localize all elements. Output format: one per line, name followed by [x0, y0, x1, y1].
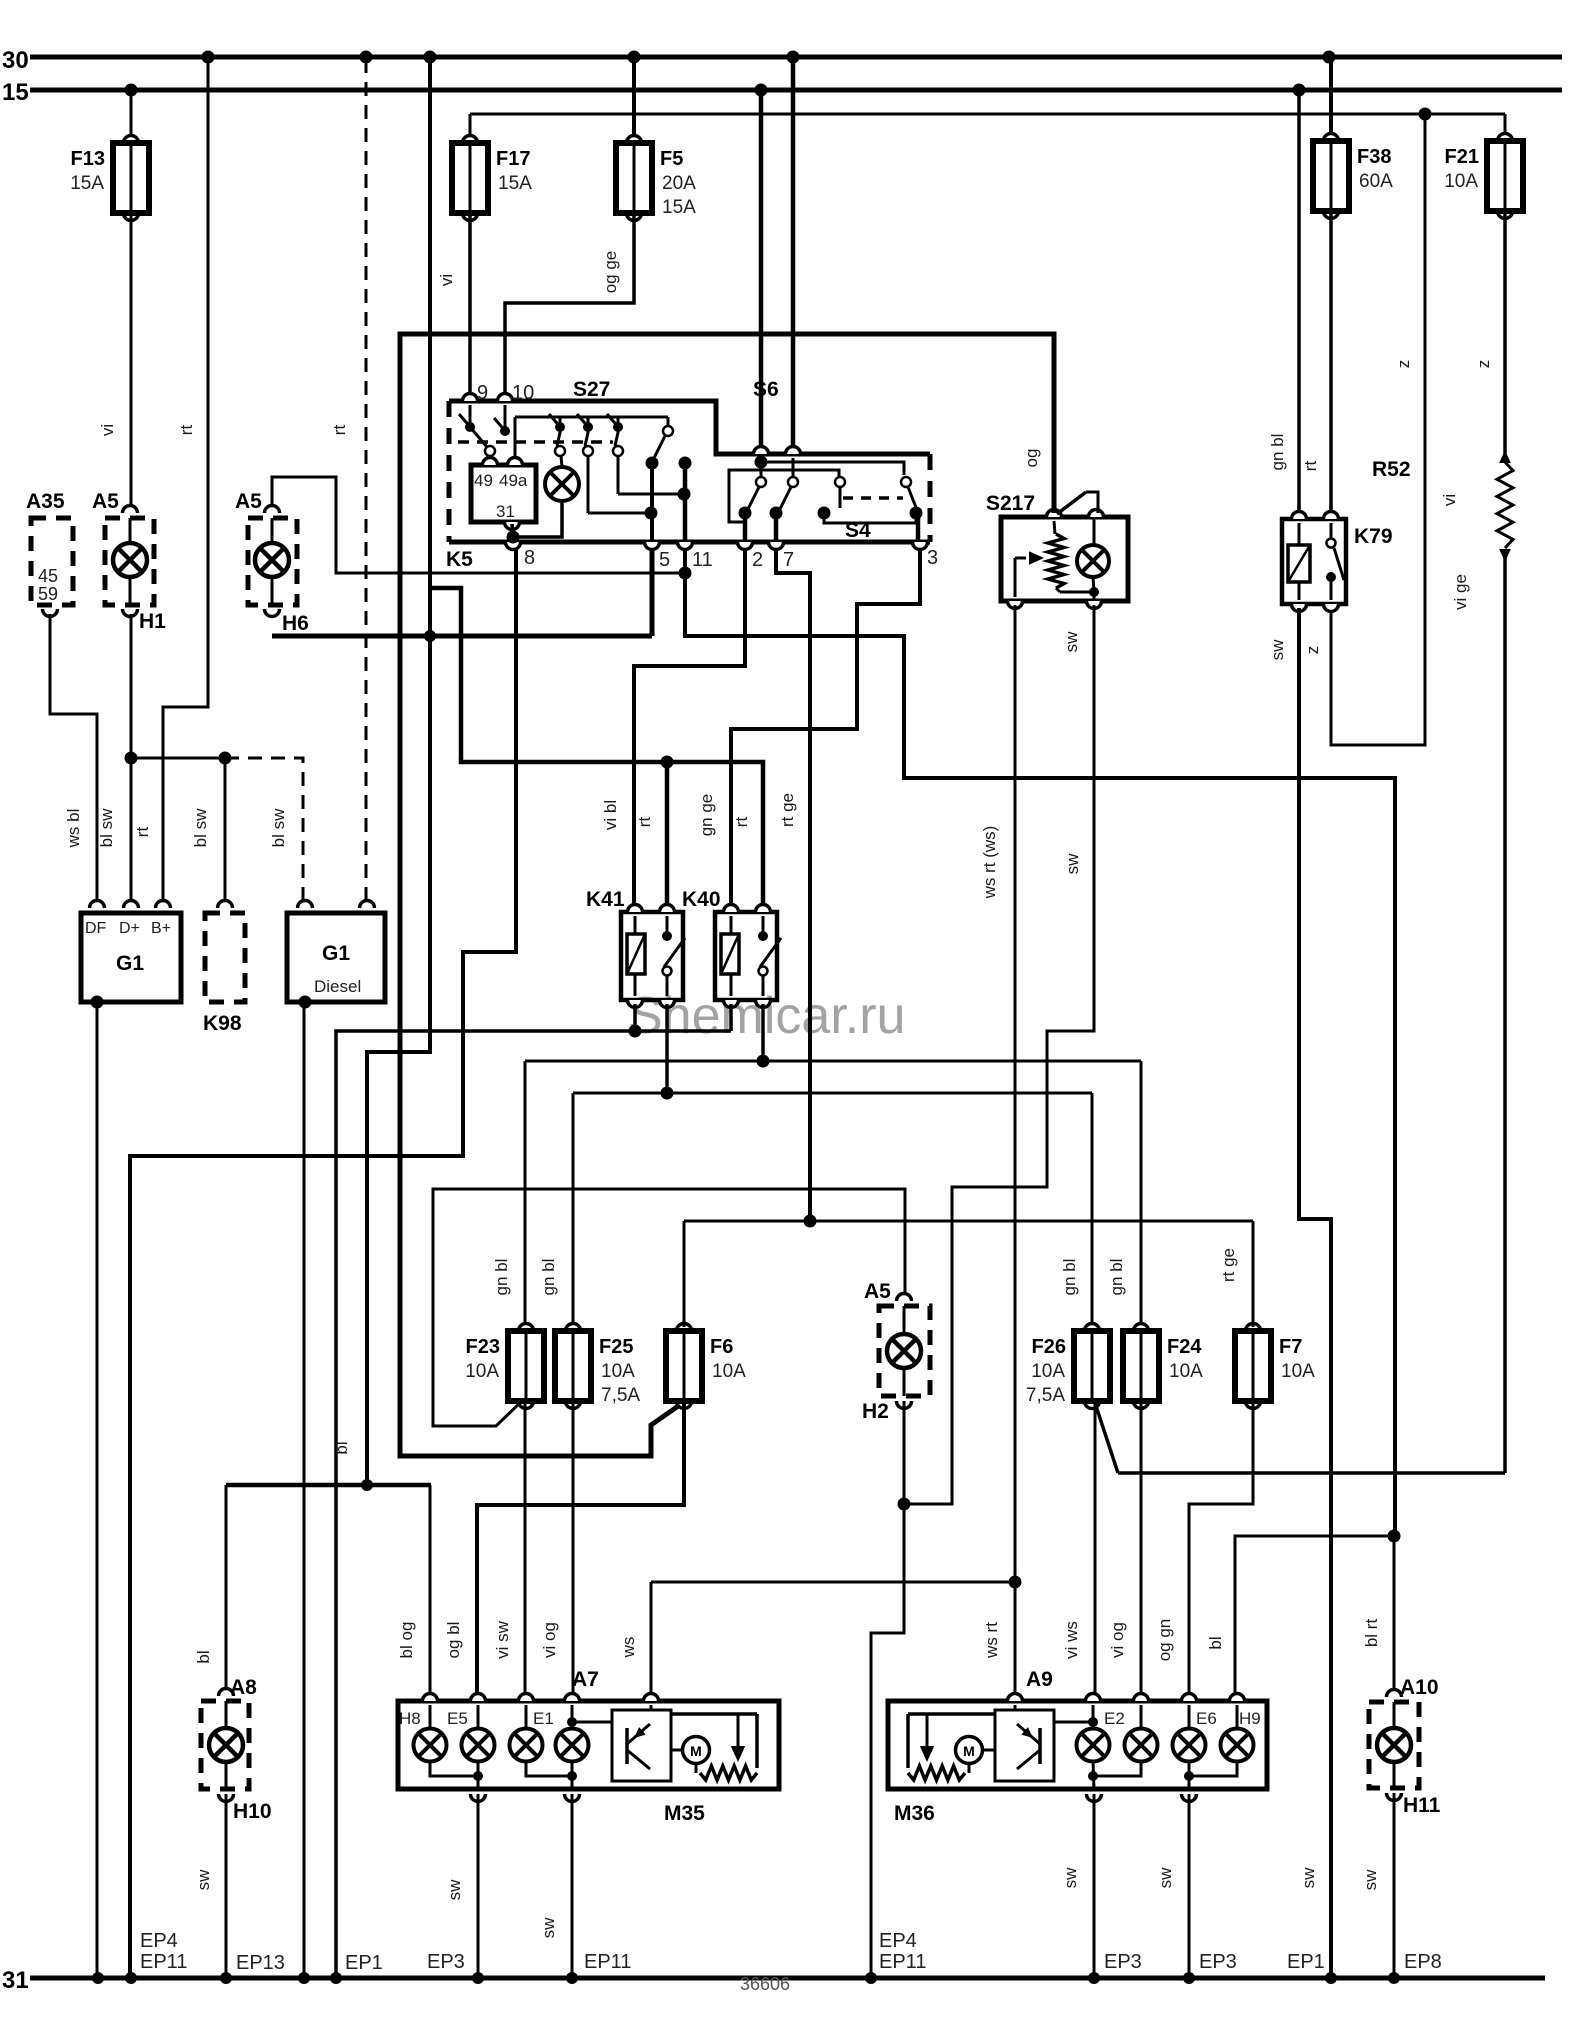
svg-text:gn bl: gn bl — [1107, 1259, 1126, 1296]
bus 31 — [2, 1967, 1545, 1994]
node ws junction — [1009, 1576, 1022, 1589]
ground EP4 EP11 middle — [865, 1930, 926, 1984]
svg-text:EP4: EP4 — [140, 1930, 178, 1952]
svg-text:K5: K5 — [446, 548, 473, 571]
svg-text:bl rt: bl rt — [1362, 1619, 1381, 1648]
lamp A8/H10 — [194, 1650, 272, 1823]
bus 30 — [2, 47, 1562, 74]
svg-text:A10: A10 — [1400, 1676, 1439, 1699]
svg-text:F25: F25 — [599, 1336, 633, 1358]
wire og bl F6 to A7 — [444, 1402, 684, 1696]
wire sw A9 EP3 left — [1061, 1794, 1094, 1978]
terminal 3 — [913, 542, 939, 569]
svg-text:30: 30 — [2, 47, 29, 74]
svg-text:60A: 60A — [1359, 171, 1393, 192]
svg-text:A5: A5 — [235, 490, 262, 513]
ground EP11 A7 — [566, 1951, 631, 1984]
lamp H9 in A9 — [1221, 1705, 1254, 1762]
ground EP13 — [220, 1952, 285, 1984]
node bl junction on H6 line — [424, 630, 436, 642]
svg-text:K79: K79 — [1354, 525, 1393, 548]
relay K79 — [1282, 512, 1393, 612]
svg-text:A9: A9 — [1026, 1668, 1053, 1691]
relay box 49/49a/31 — [471, 458, 536, 530]
wire sw A9 EP3 right — [1156, 1794, 1189, 1978]
svg-text:K40: K40 — [682, 888, 721, 911]
svg-text:F7: F7 — [1279, 1336, 1302, 1358]
lamp A5/H2 — [862, 1280, 930, 1504]
svg-text:bl sw: bl sw — [191, 808, 210, 847]
lamp E6 in A9 — [1173, 1705, 1206, 1762]
svg-text:45: 45 — [38, 566, 58, 586]
svg-text:DF: DF — [85, 920, 107, 937]
fuse F23 10A — [465, 1323, 544, 1409]
svg-text:H1: H1 — [139, 610, 166, 633]
svg-text:sw: sw — [194, 1869, 213, 1891]
svg-text:og ge: og ge — [601, 251, 620, 294]
svg-text:ws rt (ws): ws rt (ws) — [980, 826, 999, 900]
svg-text:F24: F24 — [1167, 1336, 1202, 1358]
wire sw A10 to ground — [1361, 1793, 1394, 1978]
svg-text:E2: E2 — [1104, 1709, 1125, 1728]
svg-text:rt: rt — [133, 827, 152, 838]
wire z K79 to top link — [1303, 114, 1425, 745]
wire og gn F7 to A9 — [1155, 1400, 1253, 1696]
svg-text:7,5A: 7,5A — [601, 1385, 640, 1406]
svg-text:E5: E5 — [447, 1709, 468, 1728]
svg-text:H10: H10 — [233, 1800, 272, 1823]
svg-text:Shemicar.ru: Shemicar.ru — [628, 987, 905, 1045]
svg-text:rt: rt — [1301, 461, 1320, 472]
svg-text:K41: K41 — [586, 888, 625, 911]
ground EP1 right — [1287, 1951, 1337, 1984]
svg-text:F5: F5 — [660, 148, 683, 170]
svg-text:ws rt: ws rt — [982, 1622, 1001, 1659]
svg-text:S6: S6 — [753, 378, 779, 401]
svg-text:R52: R52 — [1372, 458, 1411, 481]
relay K41 — [586, 888, 685, 1008]
svg-text:49a: 49a — [499, 471, 528, 490]
svg-text:10A: 10A — [1169, 1361, 1203, 1382]
svg-text:sw: sw — [445, 1879, 464, 1901]
svg-text:rt: rt — [177, 425, 196, 436]
svg-text:gn bl: gn bl — [1268, 434, 1287, 471]
svg-text:EP8: EP8 — [1404, 1951, 1442, 1973]
wire vi bl terminal 2 to K41 — [601, 548, 745, 908]
wire bl sw dashed to G1 Diesel — [225, 758, 303, 905]
lamp A5/H6 — [235, 490, 309, 635]
wire terminal 11 to interior lights — [685, 548, 1395, 1536]
svg-text:A35: A35 — [26, 490, 65, 513]
S27 internal links — [588, 456, 691, 542]
wire rt branch to relays K41 K40 — [431, 588, 763, 908]
lamp H8 in A7 — [414, 1705, 447, 1762]
svg-text:vi og: vi og — [1108, 1622, 1127, 1658]
svg-text:H11: H11 — [1403, 1794, 1441, 1817]
svg-text:sw: sw — [1268, 639, 1287, 661]
lamp E2 in A9 — [1077, 1705, 1110, 1762]
wire bl sw to K98 — [191, 758, 225, 905]
svg-text:z: z — [1394, 360, 1413, 369]
svg-text:2: 2 — [752, 549, 763, 571]
watermark — [628, 987, 905, 1045]
svg-text:3: 3 — [927, 547, 938, 569]
svg-text:59: 59 — [38, 584, 58, 604]
svg-text:vi: vi — [437, 274, 456, 286]
lamp A5/H1 — [92, 490, 166, 633]
svg-text:EP3: EP3 — [427, 1951, 465, 1973]
wire F17-F21 top link — [470, 113, 1505, 116]
lamp in A7 — [510, 1705, 543, 1762]
fuse F7 10A — [1235, 1323, 1315, 1409]
svg-text:EP4: EP4 — [879, 1930, 917, 1952]
wire rt dashed bus30 to G1 Diesel — [330, 59, 366, 905]
svg-text:S217: S217 — [986, 492, 1035, 515]
svg-text:vi ws: vi ws — [1062, 1621, 1081, 1659]
wire EP1 ground for relay coils — [336, 1025, 731, 1979]
svg-text:sw: sw — [1156, 1867, 1175, 1889]
ground EP3 A9 right — [1183, 1951, 1237, 1984]
svg-text:sw: sw — [1299, 1867, 1318, 1889]
wire ws rt S217 to A9 — [980, 605, 1015, 1696]
svg-text:EP13: EP13 — [236, 1952, 285, 1974]
terminal 9 — [463, 382, 489, 404]
svg-text:10A: 10A — [601, 1361, 635, 1382]
terminal 7 — [769, 542, 795, 571]
svg-text:7: 7 — [783, 549, 794, 571]
wire K40 coil to ground — [729, 1004, 733, 1031]
lamp E5 in A7 — [462, 1705, 495, 1762]
svg-text:E1: E1 — [533, 1709, 554, 1728]
S27 ignition switch contacts — [458, 405, 692, 470]
svg-text:5: 5 — [659, 549, 670, 571]
switch S217 — [986, 492, 1128, 609]
wire og S217 to F6 — [400, 334, 1054, 1456]
wire sw A7 EP11 — [539, 1794, 572, 1978]
svg-text:ws bl: ws bl — [64, 809, 83, 849]
fuse F21 10A — [1444, 114, 1523, 219]
wire gn bl K41 to F25 F26 — [539, 1004, 1092, 1327]
wire bl bus30 via A8 feed — [332, 57, 430, 1485]
ground EP1 left — [298, 1952, 383, 1984]
wire og ge F5 to S27 terminal 10 — [505, 215, 634, 397]
node H1 junction — [125, 752, 232, 765]
fuse F24 10A — [1123, 1323, 1203, 1409]
wire H6 top to terminal 11 — [272, 477, 692, 580]
svg-text:G1: G1 — [322, 942, 350, 965]
wire vi og F25 to A7 — [540, 1400, 573, 1696]
svg-text:15A: 15A — [662, 197, 696, 218]
svg-text:bl sw: bl sw — [97, 808, 116, 847]
svg-text:gn bl: gn bl — [1060, 1259, 1079, 1296]
svg-text:sw: sw — [1062, 631, 1081, 653]
wire vi ge R52 to F26 — [1095, 556, 1505, 1473]
svg-text:sw: sw — [1361, 1869, 1380, 1891]
A7 internal bottom links — [430, 1761, 577, 1790]
S4 top terminals — [754, 447, 801, 454]
headlight unit A9 — [888, 1668, 1267, 1802]
wire 30 bus to S4 contact — [791, 57, 796, 450]
svg-text:36606: 36606 — [740, 1974, 790, 1994]
bus 15 — [2, 79, 1562, 106]
svg-text:rt ge: rt ge — [1219, 1248, 1238, 1282]
svg-text:vi sw: vi sw — [493, 1620, 512, 1659]
wire K5 terminal 8 to ground — [130, 548, 516, 1978]
svg-text:F26: F26 — [1032, 1336, 1066, 1358]
svg-text:bl og: bl og — [397, 1622, 416, 1659]
node bl junction — [361, 1479, 373, 1491]
svg-text:M35: M35 — [664, 1802, 705, 1825]
wire vi ws F26 to A9 — [1062, 1400, 1095, 1696]
svg-text:K98: K98 — [203, 1012, 242, 1035]
svg-text:vi ge: vi ge — [1451, 574, 1470, 610]
wire G1 ground — [96, 1002, 99, 1978]
node z junction — [1419, 108, 1432, 121]
svg-text:S27: S27 — [573, 378, 610, 401]
svg-text:20A: 20A — [662, 173, 696, 194]
generator G1 Diesel — [287, 901, 385, 1009]
wire vi F13 to H1 — [98, 215, 131, 513]
generator G1 — [81, 901, 181, 1009]
svg-text:EP3: EP3 — [1199, 1951, 1237, 1973]
terminal 10 — [498, 382, 535, 404]
sheet number — [740, 1974, 790, 1994]
wire 15 bus to S4 contact — [759, 90, 764, 450]
wire gn ge terminal 3 to K40 — [697, 548, 920, 908]
svg-text:vi: vi — [98, 424, 117, 436]
ground EP8 — [1388, 1951, 1442, 1984]
svg-text:vi og: vi og — [540, 1622, 559, 1658]
svg-text:gn ge: gn ge — [697, 794, 716, 837]
svg-text:31: 31 — [2, 1967, 29, 1994]
svg-text:Diesel: Diesel — [314, 977, 361, 996]
svg-text:G1: G1 — [116, 952, 144, 975]
svg-text:A5: A5 — [92, 490, 119, 513]
wire A35 to G1 DF — [50, 614, 97, 905]
svg-text:rt ge: rt ge — [778, 793, 797, 827]
wire G1 Diesel ground — [303, 1002, 306, 1978]
svg-text:31: 31 — [496, 502, 515, 521]
svg-text:rt: rt — [635, 817, 654, 828]
lamp in A9 — [1125, 1705, 1158, 1762]
svg-text:E6: E6 — [1196, 1709, 1217, 1728]
svg-text:EP11: EP11 — [140, 1951, 187, 1973]
wire vi sw F23 to A7 — [493, 1400, 525, 1696]
fuse F5 20A/15A — [616, 57, 696, 221]
regulator in A7 — [567, 1705, 671, 1781]
svg-text:A7: A7 — [572, 1668, 599, 1691]
ground EP4 EP11 left — [92, 1930, 187, 1984]
fuse F17 15A — [452, 114, 532, 221]
svg-text:10A: 10A — [1444, 171, 1478, 192]
terminal 11 — [678, 542, 713, 571]
svg-text:H8: H8 — [399, 1709, 421, 1728]
lamp in S27 — [507, 456, 580, 544]
wire rt bus30 to G1 B+ — [163, 57, 208, 905]
relay K40 — [682, 888, 781, 1008]
svg-text:7,5A: 7,5A — [1026, 1385, 1065, 1406]
svg-text:EP1: EP1 — [345, 1952, 383, 1974]
svg-text:ws: ws — [619, 1637, 638, 1659]
svg-text:M: M — [690, 1743, 702, 1759]
svg-text:B+: B+ — [151, 920, 171, 937]
svg-text:EP1: EP1 — [1287, 1951, 1325, 1973]
wire H6 to terminal 5 — [272, 548, 652, 636]
wire vi og F24 to A9 — [1108, 1400, 1141, 1696]
wire bl sw H1 to G1 D+ — [97, 614, 225, 905]
svg-text:10A: 10A — [465, 1361, 499, 1382]
wire sw K79 to EP1 — [1268, 608, 1331, 1978]
wire vi F17 to S27 terminal 9 — [437, 215, 470, 397]
svg-text:F38: F38 — [1357, 146, 1391, 168]
A9 internal bottom links — [1088, 1761, 1237, 1790]
svg-text:EP11: EP11 — [879, 1951, 926, 1973]
svg-text:M: M — [963, 1743, 975, 1759]
svg-text:F23: F23 — [466, 1336, 500, 1358]
svg-text:bl sw: bl sw — [269, 808, 288, 847]
headlight unit A7 — [398, 1668, 779, 1802]
svg-text:z: z — [1474, 360, 1493, 369]
lamp E1 in A7 — [556, 1705, 589, 1762]
fuse F6 10A — [666, 1323, 746, 1409]
wire gn bl 15 bus to K79 — [1268, 90, 1299, 515]
wire K41 coil to ground — [633, 1004, 637, 1031]
wire rt F38 to K79 — [1301, 213, 1331, 515]
wire bl distribution A8/A7-H8 — [226, 1485, 431, 1696]
wire rt ge to F6 F7 tops — [684, 1215, 1253, 1328]
svg-text:10: 10 — [512, 382, 534, 404]
wire sw S217 to H2 and ground — [871, 605, 1094, 1978]
terminal 8 — [506, 542, 536, 569]
junction dots on bus 30 — [202, 51, 1336, 64]
motor M36 in A9 — [894, 1714, 995, 1825]
svg-text:EP3: EP3 — [1104, 1951, 1142, 1973]
ground EP3 A7 — [427, 1951, 484, 1984]
wire gn bl K40 to F23 F24 — [492, 1004, 1141, 1327]
svg-text:15: 15 — [2, 79, 29, 106]
motor M35 in A7 — [664, 1714, 757, 1825]
svg-text:11: 11 — [692, 549, 713, 571]
connector A35 — [26, 490, 73, 617]
svg-text:sw: sw — [539, 1917, 558, 1939]
svg-text:og gn: og gn — [1155, 1619, 1174, 1662]
wire sw A7 EP3 — [445, 1794, 478, 1978]
relay K98 — [203, 901, 245, 1035]
regulator in A9 — [995, 1705, 1098, 1781]
svg-text:M36: M36 — [894, 1802, 935, 1825]
svg-text:9: 9 — [477, 382, 488, 404]
fuse F13 15A — [70, 90, 149, 221]
switch block K5 S27 S6 outline — [446, 378, 930, 571]
fuse F25 10A/7,5A — [555, 1323, 640, 1409]
wire rt ge terminal 7 to F6 F7 — [776, 548, 810, 1221]
svg-text:rt: rt — [732, 817, 751, 828]
svg-text:vi bl: vi bl — [601, 800, 620, 830]
svg-text:F21: F21 — [1445, 146, 1479, 168]
svg-text:8: 8 — [524, 547, 535, 569]
svg-text:z: z — [1303, 646, 1322, 655]
svg-text:10A: 10A — [1281, 1361, 1315, 1382]
svg-text:10A: 10A — [1031, 1361, 1065, 1382]
svg-text:10A: 10A — [712, 1361, 746, 1382]
svg-text:H9: H9 — [1239, 1709, 1261, 1728]
svg-text:49: 49 — [474, 471, 493, 490]
svg-text:EP11: EP11 — [584, 1951, 631, 1973]
svg-text:H2: H2 — [862, 1400, 889, 1423]
wire sw A8 to ground — [194, 1794, 226, 1978]
resistor R52 — [1372, 213, 1513, 562]
svg-text:F13: F13 — [71, 148, 105, 170]
svg-text:gn bl: gn bl — [539, 1259, 558, 1296]
svg-text:F6: F6 — [710, 1336, 733, 1358]
ground EP3 A9 left — [1088, 1951, 1142, 1984]
svg-text:D+: D+ — [119, 920, 140, 937]
svg-text:F17: F17 — [496, 148, 530, 170]
svg-text:15A: 15A — [498, 173, 532, 194]
svg-text:bl: bl — [194, 1650, 213, 1663]
svg-text:og bl: og bl — [444, 1622, 463, 1659]
wire bl rt to A10 and A9 H9 — [1206, 1530, 1401, 1702]
svg-text:H6: H6 — [282, 612, 309, 635]
svg-text:vi: vi — [1440, 494, 1459, 506]
svg-text:bl: bl — [1206, 1636, 1225, 1649]
svg-text:gn bl: gn bl — [492, 1259, 511, 1296]
wire ws to A7 — [619, 1582, 1015, 1696]
svg-text:A5: A5 — [864, 1280, 891, 1303]
terminal 5 — [645, 542, 671, 571]
terminal 2 — [738, 542, 764, 571]
svg-text:og: og — [1022, 449, 1041, 468]
svg-text:15A: 15A — [70, 173, 104, 194]
wire F23 to H2 — [433, 1189, 905, 1426]
junction dots on bus 15 — [125, 84, 1306, 97]
svg-text:sw: sw — [1063, 853, 1082, 875]
svg-text:sw: sw — [1061, 1867, 1080, 1889]
S4 switch contacts — [729, 456, 923, 543]
svg-text:rt: rt — [330, 425, 349, 436]
fuse F26 10A/7,5A — [1026, 1323, 1110, 1409]
fuse F38 60A — [1313, 57, 1393, 219]
lamp A10/H11 — [1369, 1676, 1441, 1817]
